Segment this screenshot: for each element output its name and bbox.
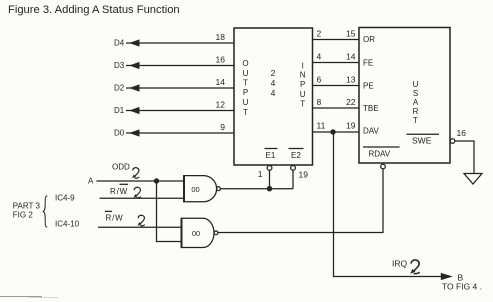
svg-text:D2: D2 — [114, 84, 125, 93]
wire D3 pin 16 — [114, 55, 234, 71]
label USART — [413, 80, 419, 125]
pin SWE label — [407, 134, 440, 145]
svg-text:DAV: DAV — [363, 127, 380, 136]
svg-text:IC4-10: IC4-10 — [55, 220, 80, 229]
svg-text:T: T — [243, 79, 248, 88]
svg-text:19: 19 — [299, 170, 309, 180]
pin RDAV label — [363, 147, 400, 159]
USART U2 body — [359, 28, 450, 164]
svg-text:PART 3: PART 3 — [13, 202, 41, 211]
svg-text:U: U — [243, 69, 249, 78]
pin 16 SWE bubble — [450, 128, 466, 143]
ground — [464, 174, 482, 185]
pin E2 label — [289, 149, 304, 161]
node DAV junction — [330, 129, 335, 134]
svg-text:T: T — [243, 108, 248, 117]
svg-text:T: T — [300, 100, 305, 109]
node A junction — [154, 178, 159, 183]
svg-text:A: A — [413, 98, 419, 107]
svg-text:Figure 3. Adding A Status Func: Figure 3. Adding A Status Function — [8, 4, 180, 16]
svg-text:A: A — [88, 177, 94, 186]
label OUTPUT — [242, 59, 248, 117]
svg-text:16: 16 — [457, 128, 467, 138]
svg-text:2: 2 — [271, 68, 276, 78]
svg-text:U: U — [413, 80, 419, 89]
svg-text:N: N — [300, 71, 306, 80]
wire R/W-bar input — [100, 197, 185, 199]
svg-text:18: 18 — [216, 32, 226, 42]
wire D2 pin 14 — [114, 77, 234, 93]
wire TBE pins 8-22 — [313, 97, 360, 108]
wire DAV pins 11-19 — [313, 121, 360, 132]
svg-text:1: 1 — [258, 169, 263, 179]
value 244 — [271, 68, 276, 98]
svg-text:00: 00 — [192, 229, 200, 238]
wire D4 pin 18 — [114, 32, 234, 48]
svg-text:O: O — [242, 59, 248, 68]
svg-text:P: P — [300, 80, 305, 89]
svg-text:R: R — [413, 107, 419, 116]
svg-text:4: 4 — [317, 52, 322, 62]
brace — [43, 196, 47, 228]
svg-text:I: I — [302, 62, 304, 71]
svg-text:RDAV: RDAV — [369, 150, 391, 159]
off-page squiggle Rbar/W — [138, 215, 145, 226]
wire SWE to ground — [455, 141, 474, 174]
svg-text:4: 4 — [271, 88, 276, 98]
svg-text:S: S — [413, 89, 418, 98]
off-page squiggle IRQ — [410, 260, 419, 274]
svg-text:T: T — [413, 116, 418, 125]
svg-text:OR: OR — [363, 35, 375, 44]
svg-text:15: 15 — [346, 29, 356, 39]
svg-text:TO FIG 4 .: TO FIG 4 . — [442, 282, 482, 292]
wire G1 output to E1 E2 — [220, 188, 293, 190]
pin E1 bubble — [267, 166, 272, 171]
node E1 junction — [267, 186, 273, 192]
label INPUT — [300, 62, 306, 109]
pin E2 bubble — [291, 166, 296, 171]
svg-text:00: 00 — [191, 185, 199, 194]
wire DAV to IRQ — [334, 132, 442, 277]
svg-text:FIG 2: FIG 2 — [13, 211, 34, 220]
svg-text:R/W: R/W — [106, 214, 124, 223]
svg-text:6: 6 — [317, 75, 322, 85]
svg-text:E1: E1 — [266, 151, 276, 160]
svg-text:12: 12 — [216, 100, 226, 110]
svg-text:19: 19 — [346, 121, 356, 131]
wire D0 pin 9 — [114, 122, 234, 138]
svg-text:SWE: SWE — [412, 136, 432, 146]
off-page squiggle R/W-bar — [134, 187, 141, 198]
svg-text:2: 2 — [317, 29, 322, 39]
label R/W-bar — [110, 184, 128, 196]
svg-text:ODD: ODD — [112, 163, 130, 172]
svg-text:U: U — [243, 98, 249, 107]
wire RDAV to gate G2 output — [218, 169, 383, 233]
svg-text:TBE: TBE — [363, 104, 379, 113]
wire FE pins 4-14 — [313, 52, 360, 63]
pin RDAV bubble — [381, 164, 386, 169]
svg-text:IRQ: IRQ — [392, 259, 408, 269]
svg-text:D0: D0 — [114, 129, 125, 138]
svg-text:U: U — [300, 90, 306, 99]
svg-text:FE: FE — [363, 59, 373, 68]
svg-text:8: 8 — [317, 97, 322, 107]
svg-text:22: 22 — [346, 97, 356, 107]
svg-text:PE: PE — [363, 82, 374, 91]
wire OR pins 2-15 — [313, 29, 360, 40]
svg-text:IC4-9: IC4-9 — [55, 194, 75, 203]
svg-text:D1: D1 — [114, 106, 125, 115]
svg-text:P: P — [243, 88, 248, 97]
wire E2 stem pin 19 — [293, 170, 308, 189]
svg-text:R/W: R/W — [110, 187, 128, 196]
svg-text:14: 14 — [216, 77, 226, 87]
wire D1 pin 12 — [114, 100, 234, 116]
svg-text:11: 11 — [317, 121, 326, 131]
nand gate G2 (7400) — [182, 218, 218, 248]
pin E1 label — [265, 149, 278, 161]
svg-text:16: 16 — [216, 55, 226, 65]
scan artifact line — [0, 296, 42, 298]
svg-text:D3: D3 — [114, 61, 125, 70]
label Rbar/W — [105, 211, 123, 222]
svg-text:9: 9 — [220, 122, 225, 132]
svg-text:E2: E2 — [291, 151, 301, 160]
nand gate G1 (7400) — [184, 175, 220, 202]
wire A input — [97, 180, 185, 182]
svg-text:D4: D4 — [114, 39, 125, 48]
wire E1 stem pin 1 — [258, 169, 270, 189]
wire Rbar/W input — [98, 226, 182, 228]
buffer U1 244 body — [234, 28, 313, 165]
wire PE pins 6-13 — [313, 75, 360, 86]
off-page squiggle ODD — [132, 168, 139, 179]
svg-text:13: 13 — [346, 75, 356, 85]
svg-text:4: 4 — [271, 78, 276, 88]
wire A to G2 lower input — [157, 181, 182, 242]
svg-text:14: 14 — [346, 52, 356, 62]
arrow to fig 4 — [441, 273, 453, 280]
